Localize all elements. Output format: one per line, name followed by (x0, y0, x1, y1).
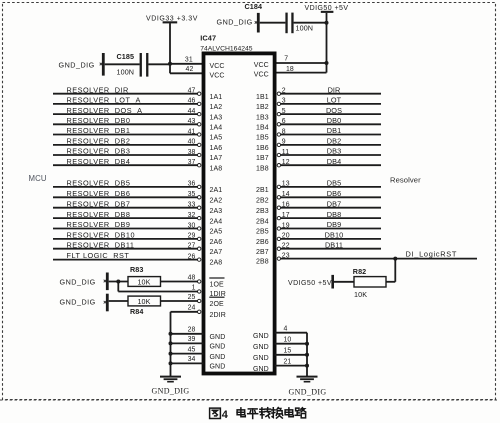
wire VDIG33 rail (169, 23, 171, 73)
svg-text:2A5: 2A5 (210, 229, 223, 236)
svg-text:7: 7 (284, 56, 288, 63)
svg-text:36: 36 (188, 181, 196, 188)
svg-text:39: 39 (188, 336, 196, 343)
svg-text:35: 35 (188, 191, 196, 198)
svg-text:2B4: 2B4 (256, 218, 269, 225)
svg-text:GND_DIG: GND_DIG (60, 277, 96, 286)
svg-text:2B8: 2B8 (256, 259, 269, 266)
svg-text:1B6: 1B6 (256, 145, 269, 152)
wire pin 24 (2DIR) to ground bus (171, 305, 201, 314)
caption figure number 图4 (210, 408, 221, 418)
svg-text:RESOLVER DOS A: RESOLVER DOS A (67, 106, 143, 115)
wire RESOLVER&#160;&#160;DB0 to pin 43 (1A4) (53, 116, 201, 126)
ground symbol GND_DIG (right) (288, 377, 326, 397)
svg-text:45: 45 (188, 346, 196, 353)
svg-text:3: 3 (282, 98, 286, 105)
svg-text:RESOLVER DB1: RESOLVER DB1 (67, 126, 131, 135)
wire DB7 from pin 16 (2B3) (277, 199, 381, 209)
capacitor C184 100N (245, 2, 314, 33)
wire RESOLVER&#160;&#160;DB6 to pin 35 (2A2) (53, 189, 201, 199)
svg-text:43: 43 (188, 118, 196, 125)
svg-text:29: 29 (188, 233, 196, 240)
pin label 1OE (active low) (209, 278, 224, 289)
wire DIR from pin 2 (1B1) (277, 85, 381, 95)
svg-text:38: 38 (188, 149, 196, 156)
svg-text:Resolver: Resolver (390, 175, 421, 184)
svg-text:100N: 100N (117, 67, 135, 76)
svg-text:MCU: MCU (29, 174, 47, 183)
wire DI_LogicRST from pin 23 (2B8) (277, 249, 477, 260)
ground port GND_DIG (R84) (60, 294, 109, 312)
resistor R83 10K (128, 265, 161, 286)
wire RESOLVER&#160;&#160;DB5 to pin 36 (2A1) (53, 179, 201, 189)
wire RESOLVER&#160;&#160;DB1 to pin 41 (1A5) (53, 126, 201, 136)
svg-text:2A7: 2A7 (210, 249, 223, 256)
wire DB6 from pin 14 (2B2) (277, 189, 381, 199)
svg-text:1B2: 1B2 (256, 104, 269, 111)
svg-text:1B8: 1B8 (256, 165, 269, 172)
ground port GND_DIG (C185) (59, 53, 105, 76)
svg-text:1A1: 1A1 (210, 94, 223, 101)
svg-text:DB7: DB7 (327, 199, 342, 208)
svg-text:100N: 100N (296, 23, 314, 32)
svg-text:VDIG50 +5V: VDIG50 +5V (288, 280, 332, 287)
svg-text:4: 4 (284, 326, 288, 333)
svg-text:GND_DIG: GND_DIG (288, 388, 326, 397)
wire DB0 from pin 6 (1B4) (277, 116, 381, 126)
wire GND pin 39 (171, 336, 204, 343)
svg-text:26: 26 (188, 253, 196, 260)
wire GND pin 21 (275, 358, 307, 365)
resistor R82 10K (353, 267, 386, 299)
node DI_LogicRST / R82 junction (393, 257, 397, 261)
wire FLT LOGIC RST to pin 26 (2A8) (53, 251, 201, 261)
wire C185 to VDIG33 rail (148, 63, 170, 65)
svg-text:GND_DIG: GND_DIG (151, 386, 189, 395)
wire GND pin 10 (275, 337, 307, 344)
svg-text:2: 2 (282, 88, 286, 95)
svg-text:1B4: 1B4 (256, 125, 269, 132)
wire RESOLVER&#160;&#160;DB10 to pin 29 (2A6) (53, 231, 201, 241)
svg-text:2B1: 2B1 (256, 187, 269, 194)
svg-text:48: 48 (188, 274, 196, 281)
svg-text:1A2: 1A2 (210, 104, 223, 111)
svg-text:DB11: DB11 (325, 240, 343, 249)
svg-text:DB6: DB6 (327, 189, 342, 198)
wire VCC pin 31 (170, 56, 204, 64)
svg-text:1B5: 1B5 (256, 135, 269, 142)
wire VDIG50 to R82 (334, 281, 354, 283)
wire RESOLVER&#160;&#160;DIR to pin 47 (1A1) (53, 85, 201, 95)
svg-text:GND_DIG: GND_DIG (217, 18, 253, 27)
svg-text:2B5: 2B5 (256, 229, 269, 236)
wire DB10 from pin 20 (2B6) (277, 231, 381, 241)
svg-text:RESOLVER DB11: RESOLVER DB11 (67, 240, 135, 249)
svg-text:IC47: IC47 (200, 34, 216, 43)
svg-text:GND: GND (253, 355, 269, 362)
svg-text:1A8: 1A8 (210, 165, 223, 172)
svg-text:1A5: 1A5 (210, 135, 223, 142)
svg-text:22: 22 (282, 243, 290, 250)
svg-text:1B1: 1B1 (256, 94, 269, 101)
svg-text:30: 30 (188, 222, 196, 229)
ground port GND_DIG (R83) (60, 273, 109, 291)
svg-text:5: 5 (282, 108, 286, 115)
power port VDIG50 +5V (R82) (288, 275, 334, 289)
wire GND_DIG to R84 (109, 300, 128, 302)
svg-text:C184: C184 (245, 2, 263, 11)
wire DB4 from pin 12 (1B8) (277, 157, 381, 167)
node ground bus junction pin 45 (169, 352, 173, 356)
wire RESOLVER&#160;&#160;DB3 to pin 38 (1A7) (53, 147, 201, 157)
wire RESOLVER&#160;&#160;DB2 to pin 40 (1A6) (53, 137, 201, 147)
wire GND_DIG to C185 (105, 63, 140, 65)
svg-text:1A4: 1A4 (210, 125, 223, 132)
svg-text:DB4: DB4 (327, 157, 342, 166)
wire VDIG50 rail (326, 13, 328, 73)
svg-text:27: 27 (188, 243, 196, 250)
node VDIG33/C185/pin31 junction (168, 62, 172, 66)
svg-text:47: 47 (188, 88, 196, 95)
svg-text:17: 17 (282, 212, 290, 219)
svg-text:RESOLVER DB10: RESOLVER DB10 (67, 231, 136, 240)
svg-text:2A1: 2A1 (210, 187, 223, 194)
svg-text:33: 33 (188, 202, 196, 209)
svg-text:RESOLVER DB9: RESOLVER DB9 (67, 220, 131, 229)
node VDIG50/C184 junction (325, 21, 329, 25)
wire VCC pin 42 (170, 66, 204, 73)
svg-text:DB10: DB10 (325, 231, 344, 240)
wire DB1 from pin 8 (1B5) (277, 126, 381, 136)
wire ground bus (right) (306, 333, 308, 376)
svg-text:DOS: DOS (326, 106, 342, 115)
svg-text:RESOLVER DB5: RESOLVER DB5 (67, 179, 131, 188)
svg-text:DB0: DB0 (327, 116, 342, 125)
svg-text:R83: R83 (130, 265, 144, 274)
svg-text:44: 44 (188, 108, 196, 115)
svg-text:1B7: 1B7 (256, 155, 269, 162)
svg-text:RESOLVER DB6: RESOLVER DB6 (67, 189, 131, 198)
wire GND pin 34 (171, 356, 204, 363)
wire DB9 from pin 19 (2B5) (277, 220, 381, 230)
svg-text:1B3: 1B3 (256, 114, 269, 121)
svg-text:16: 16 (282, 202, 290, 209)
wire GND_DIG to C184 (260, 22, 286, 24)
wire RESOLVER&#160;&#160;DB9 to pin 30 (2A5) (53, 220, 201, 230)
svg-text:VCC: VCC (254, 72, 269, 79)
svg-text:2B6: 2B6 (256, 239, 269, 246)
svg-text:2DIR: 2DIR (210, 312, 226, 319)
svg-text:GND: GND (253, 366, 269, 373)
svg-text:2A6: 2A6 (210, 239, 223, 246)
svg-text:GND_DIG: GND_DIG (59, 61, 95, 70)
svg-text:RESOLVER DB3: RESOLVER DB3 (67, 147, 131, 156)
caption separator dashed line (0, 399, 497, 401)
wire RESOLVER&#160;&#160;DB11 to pin 27 (2A7) (53, 240, 201, 250)
svg-text:DIR: DIR (328, 85, 341, 94)
node ground bus junction pin 34 (169, 361, 173, 365)
wire DB5 from pin 13 (2B1) (277, 179, 381, 189)
resistor R84 10K (128, 296, 161, 316)
svg-text:2B7: 2B7 (256, 249, 269, 256)
svg-text:2OE: 2OE (210, 301, 225, 308)
svg-text:74ALVCH164245: 74ALVCH164245 (200, 45, 253, 52)
svg-text:24: 24 (188, 305, 196, 312)
wire RESOLVER&#160;&#160;DB7 to pin 33 (2A3) (53, 199, 201, 209)
svg-text:11: 11 (282, 149, 289, 156)
svg-text:DB8: DB8 (327, 210, 342, 219)
ground symbol GND_DIG (left) (151, 377, 189, 396)
svg-text:RESOLVER DIR: RESOLVER DIR (67, 85, 129, 94)
wire GND pin 15 (275, 348, 307, 355)
node ground bus junction pin 28 (169, 332, 173, 336)
svg-text:VCC: VCC (254, 62, 269, 69)
wire R84 to pin 25 (2OE) (161, 294, 201, 303)
svg-text:DB3: DB3 (327, 147, 342, 156)
wire VCC pin 18 (275, 66, 327, 73)
svg-text:VCC: VCC (210, 72, 225, 79)
node ground bus junction pin 21 (305, 364, 309, 368)
svg-text:2B3: 2B3 (256, 208, 269, 215)
svg-text:2A4: 2A4 (210, 218, 223, 225)
pin label 2OE (active low) (209, 297, 224, 308)
wire DB3 from pin 11 (1B7) (277, 147, 381, 157)
wire DB11 from pin 22 (2B7) (277, 240, 381, 250)
wire LOT from pin 3 (1B2) (277, 96, 381, 106)
svg-text:10K: 10K (354, 290, 367, 299)
svg-text:10: 10 (284, 337, 292, 344)
svg-text:20: 20 (282, 233, 290, 240)
svg-text:23: 23 (282, 252, 290, 259)
svg-text:15: 15 (284, 348, 292, 355)
wire C184 to VDIG50 rail (294, 22, 327, 24)
svg-text:4: 4 (222, 409, 229, 421)
power VDIG50 +5V (top) (305, 5, 349, 13)
svg-text:GND_DIG: GND_DIG (60, 298, 96, 307)
svg-text:14: 14 (282, 191, 290, 198)
svg-text:LOT: LOT (327, 96, 342, 105)
wire R82 to DI_LogicRST node (386, 259, 395, 282)
svg-text:R84: R84 (130, 307, 144, 316)
svg-text:GND: GND (210, 344, 226, 351)
svg-text:2A2: 2A2 (210, 198, 223, 205)
svg-text:GND: GND (210, 334, 226, 341)
svg-text:1A6: 1A6 (210, 145, 223, 152)
svg-text:R82: R82 (353, 267, 367, 276)
svg-text:46: 46 (188, 98, 196, 105)
wire VCC pin 7 (275, 56, 327, 63)
svg-text:1A3: 1A3 (210, 114, 223, 121)
svg-text:8: 8 (282, 128, 286, 135)
wire 2DIR/ground bus (left) (170, 312, 172, 376)
capacitor C185 100N (117, 52, 149, 76)
wire R83 to pin 48 (1OE) (161, 274, 201, 283)
wire RESOLVER&#160;&#160;LOT&#160;&#160;A to pin 46 (1A2) (53, 96, 201, 106)
svg-text:RESOLVER DB0: RESOLVER DB0 (67, 116, 131, 125)
wire junction to pin 1 (1DIR) (118, 282, 201, 294)
wire RESOLVER&#160;&#160;DB8 to pin 32 (2A4) (53, 210, 201, 220)
svg-text:28: 28 (188, 327, 196, 334)
wire RESOLVER&#160;&#160;DB4 to pin 37 (1A8) (53, 157, 201, 167)
svg-text:41: 41 (188, 128, 196, 135)
svg-text:10K: 10K (137, 297, 150, 306)
node ground bus junction pin 10 (305, 342, 309, 346)
svg-text:GND: GND (210, 354, 226, 361)
wire RESOLVER&#160;&#160;DOS&#160;&#160;A to pin 44 (1A3) (53, 106, 201, 116)
svg-text:1: 1 (192, 285, 196, 292)
svg-text:RESOLVER LOT A: RESOLVER LOT A (67, 96, 141, 105)
svg-text:2A8: 2A8 (210, 260, 223, 267)
node ground bus junction pin 39 (169, 341, 173, 345)
svg-text:9: 9 (282, 139, 286, 146)
node VDIG50/pin7 junction (325, 61, 329, 65)
svg-text:RESOLVER DB7: RESOLVER DB7 (67, 199, 131, 208)
wire DOS from pin 5 (1B3) (277, 106, 381, 116)
svg-text:C185: C185 (117, 52, 135, 61)
svg-text:DB1: DB1 (327, 126, 342, 135)
svg-text:VCC: VCC (210, 63, 225, 70)
wire DB8 from pin 17 (2B4) (277, 210, 381, 220)
svg-text:10K: 10K (137, 277, 150, 286)
svg-text:21: 21 (284, 358, 292, 365)
svg-text:18: 18 (286, 66, 294, 73)
svg-text:1OE: 1OE (210, 282, 225, 289)
caption text 电平转换电路 (237, 408, 245, 417)
ground port GND_DIG (C184) (217, 13, 260, 33)
svg-text:DB9: DB9 (327, 220, 342, 229)
wire GND pin 4 (275, 326, 307, 333)
wire DB2 from pin 9 (1B6) (277, 137, 381, 147)
svg-text:2B2: 2B2 (256, 198, 269, 205)
node ground bus junction pin 15 (305, 353, 309, 357)
wire GND pin 45 (171, 346, 204, 353)
svg-text:DI_LogicRST: DI_LogicRST (406, 249, 458, 258)
svg-text:GND: GND (253, 344, 269, 351)
svg-text:DB2: DB2 (327, 137, 342, 146)
svg-text:GND: GND (210, 364, 226, 371)
svg-text:37: 37 (188, 159, 196, 166)
svg-text:2A3: 2A3 (210, 208, 223, 215)
svg-text:GND: GND (253, 333, 269, 340)
svg-text:25: 25 (188, 294, 196, 301)
svg-text:12: 12 (282, 159, 290, 166)
svg-text:40: 40 (188, 139, 196, 146)
wire GND_DIG to R83 (109, 281, 128, 283)
power VDIG33 +3.3V (146, 16, 198, 24)
svg-text:1A7: 1A7 (210, 155, 223, 162)
svg-text:34: 34 (188, 356, 196, 363)
wire GND pin 28 (171, 327, 204, 334)
svg-text:13: 13 (282, 181, 290, 188)
svg-text:42: 42 (186, 66, 194, 73)
svg-text:FLT LOGIC RST: FLT LOGIC RST (67, 251, 130, 260)
svg-text:32: 32 (188, 212, 196, 219)
IC IC47 74ALVCH164245 level translator body (204, 53, 275, 373)
svg-text:6: 6 (282, 118, 286, 125)
svg-text:19: 19 (282, 222, 290, 229)
svg-text:RESOLVER DB2: RESOLVER DB2 (67, 137, 131, 146)
svg-text:RESOLVER DB4: RESOLVER DB4 (67, 157, 131, 166)
svg-text:31: 31 (185, 56, 193, 63)
svg-text:DB5: DB5 (327, 179, 342, 188)
svg-text:RESOLVER DB8: RESOLVER DB8 (67, 210, 131, 219)
node R83/1DIR junction (116, 280, 120, 284)
